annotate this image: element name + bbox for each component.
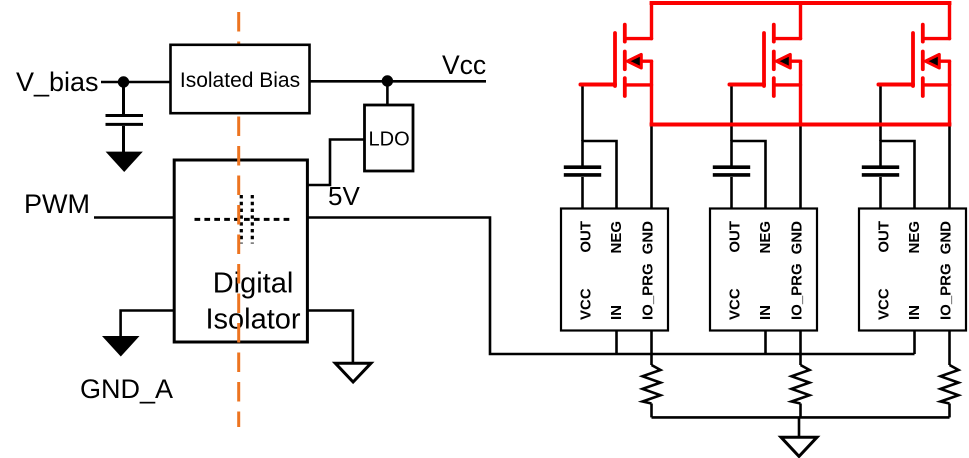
resistor R2	[792, 365, 810, 404]
wire Q1 source rail to U4 GND pin	[650, 126, 653, 209]
svg-text:VCC: VCC	[578, 288, 595, 320]
wire capacitor C2 to gate node	[581, 140, 584, 166]
capacitor C1 on V_bias	[106, 82, 144, 153]
svg-text:V_bias: V_bias	[16, 67, 99, 97]
capacitor C3	[713, 167, 750, 175]
wire LDO input pin	[386, 81, 389, 106]
junction dot V_bias node	[118, 76, 129, 87]
wire PWM input to U3	[94, 216, 174, 219]
svg-text:VCC: VCC	[876, 288, 893, 320]
ground secondary (open triangle)	[335, 363, 371, 382]
svg-text:PWM: PWM	[24, 189, 90, 219]
gate driver U5 box	[710, 209, 817, 331]
wire resistor R3 to ground bus	[948, 404, 951, 418]
svg-text:Vcc: Vcc	[442, 50, 486, 80]
wire U6 IN pin to signal bus	[913, 331, 916, 355]
ground driver common (open triangle)	[781, 437, 817, 456]
wire U3 secondary ground pin	[306, 311, 353, 364]
svg-text:IN: IN	[906, 305, 923, 320]
wire LDO output to U3 5V pin	[306, 140, 365, 186]
svg-text:IO_PRG: IO_PRG	[938, 263, 955, 320]
svg-text:Isolated Bias: Isolated Bias	[180, 69, 300, 92]
isolation capacitor barrier inside U3	[240, 195, 243, 244]
wire resistor R1 to ground bus	[650, 404, 653, 418]
orange isolation barrier line (lower part)	[237, 117, 240, 428]
wire resistor R2 to ground bus	[799, 404, 802, 418]
svg-text:GND: GND	[789, 221, 806, 255]
gate driver U6 box	[859, 209, 966, 331]
gate driver U4 box	[561, 209, 668, 331]
wire capacitor C3 to gate node	[730, 140, 733, 166]
wire ground bus stub	[798, 417, 801, 438]
svg-text:GND: GND	[938, 221, 955, 255]
wire gate node branch to U5 NEG pin	[732, 141, 766, 209]
orange isolation barrier line (upper part)	[237, 12, 240, 46]
transistor Q3 (NMOS, red)	[879, 3, 950, 125]
wire gate node up to Q3 gate	[879, 85, 882, 142]
red drain rail (top)	[650, 1, 952, 5]
svg-text:NEG: NEG	[608, 221, 625, 254]
wire V_bias to Isolated Bias input	[101, 81, 172, 84]
wire capacitor C4 to gate node	[879, 140, 882, 166]
svg-text:IN: IN	[608, 305, 625, 320]
svg-text:Digital: Digital	[213, 268, 294, 300]
digital isolator U3 box	[174, 160, 307, 342]
wire ground bus (IO_PRG common)	[652, 416, 950, 419]
wire PWM signal bus from U3 to drivers	[306, 218, 915, 355]
svg-text:GND_A: GND_A	[80, 374, 173, 404]
wire Isolated Bias output to Vcc	[310, 80, 487, 83]
wire Q3 source rail to U6 GND pin	[948, 126, 951, 209]
svg-text:OUT: OUT	[727, 221, 744, 253]
wire gate node up to Q2 gate	[730, 85, 733, 142]
wire U5 IO_PRG pin to resistor R2	[799, 331, 802, 366]
resistor R1	[643, 365, 661, 404]
svg-text:5V: 5V	[328, 181, 360, 211]
capacitor C4	[862, 167, 899, 175]
svg-text:VCC: VCC	[727, 288, 744, 320]
wire U4 OUT pin to capacitor C2	[581, 177, 584, 209]
transistor Q1 (NMOS, red)	[581, 3, 652, 125]
wire gate node up to Q1 gate	[581, 85, 584, 142]
svg-text:NEG: NEG	[906, 221, 923, 254]
svg-text:IO_PRG: IO_PRG	[640, 263, 657, 320]
wire gate node branch to U6 NEG pin	[881, 141, 915, 209]
ground symbol below C1 (filled)	[106, 152, 143, 172]
wire gate node branch to U4 NEG pin	[583, 141, 617, 209]
svg-text:OUT: OUT	[876, 221, 893, 253]
svg-text:OUT: OUT	[578, 221, 595, 253]
svg-text:LDO: LDO	[369, 129, 410, 151]
converter U1 Isolated Bias box	[171, 45, 310, 113]
svg-text:IO_PRG: IO_PRG	[789, 263, 806, 320]
wire U4 IN pin to signal bus	[615, 331, 618, 355]
wire Q2 source rail to U5 GND pin	[799, 126, 802, 209]
wire U6 IO_PRG pin to resistor R3	[948, 331, 951, 366]
svg-text:GND: GND	[640, 221, 657, 255]
wire U5 IN pin to signal bus	[764, 331, 767, 355]
svg-text:IN: IN	[757, 305, 774, 320]
wire U3 GND_A pin	[121, 311, 174, 338]
svg-text:NEG: NEG	[757, 221, 774, 254]
junction dot Vcc node	[382, 75, 393, 86]
resistor R3	[941, 365, 959, 404]
wire U5 OUT pin to capacitor C3	[730, 177, 733, 209]
wire U6 OUT pin to capacitor C4	[879, 177, 882, 209]
dashed signal path inside U3	[195, 218, 291, 221]
wire U4 IO_PRG pin to resistor R1	[650, 331, 653, 366]
capacitor C2	[564, 167, 601, 175]
ground GND_A (filled)	[102, 336, 140, 357]
red source rail (bottom)	[650, 123, 952, 127]
transistor Q2 (NMOS, red)	[730, 3, 801, 125]
svg-text:Isolator: Isolator	[205, 304, 300, 336]
regulator U2 LDO box	[365, 105, 414, 171]
